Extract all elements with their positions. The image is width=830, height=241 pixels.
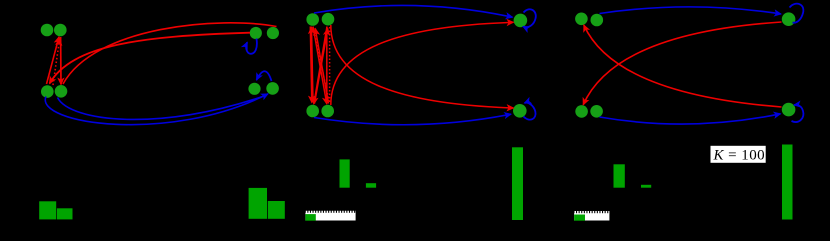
label K = 100 [711, 146, 766, 164]
edge blue B2->D2 inner curve [58, 96, 266, 120]
bar chart5 bar2 [641, 185, 651, 188]
self-loop blue at K [790, 4, 804, 23]
node L [782, 103, 796, 117]
node G [514, 14, 528, 28]
edge red E2->F1 [314, 27, 327, 105]
edge red E1->F2 [313, 27, 327, 105]
edge red B2->A2 dotted [53, 39, 60, 86]
bar chart1 bar1 [39, 201, 56, 219]
edge red F1->E1 up [312, 27, 314, 103]
self-loop blue at G [523, 9, 536, 27]
hatched white bar chart3 [305, 213, 355, 221]
self-loop blue at L [792, 105, 804, 122]
self-loop blue at H [524, 103, 536, 120]
edge red L->I1 long curve [584, 25, 782, 107]
green sub-bar chart3 [305, 214, 315, 221]
edge red E1->F2 dotted [314, 28, 330, 101]
edge blue E1->G top curve [314, 5, 513, 17]
edge blue I2->K top curve [600, 7, 782, 14]
svg-text:K = 100: K = 100 [713, 148, 766, 164]
node F2 [321, 105, 334, 118]
node E1 [306, 13, 319, 26]
edge red E1->F1 down [310, 27, 312, 103]
node H [513, 104, 527, 118]
edge red B2->C2 long curve [63, 23, 277, 84]
node J1 [575, 105, 588, 118]
edge blue D2->D1 arc [257, 71, 272, 81]
node J2 [590, 105, 603, 118]
node C1 [250, 27, 262, 39]
node A2 [54, 24, 67, 37]
node B2 [55, 85, 68, 98]
bar chart2 bar1 [249, 188, 267, 219]
bar chart3 bar2 [366, 183, 376, 188]
edge red E->H long curve [331, 25, 514, 108]
node C2 [267, 27, 279, 39]
edge red F->G long curve [331, 22, 514, 105]
hatched white bar chart5 [574, 213, 609, 220]
edge red C1->B1 long curve [50, 33, 251, 84]
node B1 [41, 85, 54, 98]
green sub-bar chart5 [574, 215, 585, 221]
edge red E2->F2 dotted [329, 27, 331, 103]
edge red F2->E1 [315, 29, 328, 104]
node K [782, 12, 796, 26]
edge red B1->A2 solid [47, 37, 60, 84]
edge blue F1->H bottom curve [314, 114, 511, 125]
edge red F1->E2 [315, 29, 328, 104]
edge red E2->F2 vertical [326, 27, 328, 103]
bar chart6 tall bar [782, 145, 793, 220]
edge blue J2->L bottom curve [600, 114, 781, 124]
self-loop blue at C1 [246, 39, 257, 54]
node I2 [591, 14, 604, 27]
bar chart1 bar2 [57, 208, 73, 219]
bar chart3 bar1 [340, 159, 350, 187]
bar chart4 tall bar [512, 147, 523, 220]
node D1 [248, 83, 260, 95]
bar chart5 bar1 [614, 164, 625, 187]
node A1 [41, 24, 54, 37]
node I1 [575, 12, 588, 25]
bar chart2 bar2 [268, 201, 285, 219]
edge red K->J1 long curve [583, 22, 781, 105]
edge blue B1->D2 outer curve [45, 94, 268, 125]
edge red A2->B2 vertical [60, 37, 62, 85]
node F1 [306, 105, 319, 118]
node E2 [322, 13, 335, 26]
node D2 [266, 82, 279, 95]
